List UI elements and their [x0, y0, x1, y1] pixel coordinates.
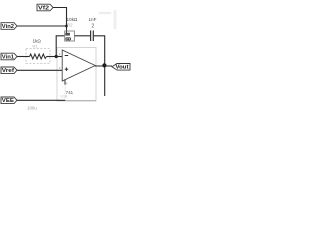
svg-text:R1: R1	[33, 43, 39, 48]
wire bottom rail continuation (faded)	[65, 100, 96, 102]
junction dot output node	[102, 63, 106, 67]
svg-text:1nF: 1nF	[89, 17, 97, 22]
wire port P1 to corner	[53, 8, 67, 31]
port P6 flag output	[112, 64, 130, 71]
svg-text:Vin1: Vin1	[2, 54, 14, 60]
dashed selection box around resistor R1	[26, 49, 50, 64]
junction dot at P2 wire / vertical	[65, 25, 68, 28]
port P2 flag	[1, 23, 17, 30]
junction dot inverting node	[55, 55, 58, 58]
wire port P2 row	[17, 25, 67, 27]
wire feedback left vertical to inverting node	[56, 36, 64, 57]
wire port P4 to non-inverting input	[17, 69, 62, 71]
svg-text:2: 2	[92, 24, 95, 30]
resistor R1 zigzag	[30, 54, 47, 59]
port P5 flag	[1, 97, 17, 104]
svg-text:100u: 100u	[27, 106, 37, 111]
faded wire pin4 to bottom rail	[64, 85, 66, 100]
wire feedback horizontal through network	[75, 35, 91, 37]
capacitor C2 plates	[91, 31, 94, 42]
wire op-amp output to port P6	[95, 65, 112, 67]
op-amp U1 triangle	[62, 50, 95, 81]
wire port P5 bottom rail	[17, 99, 65, 101]
svg-text:10kΩ: 10kΩ	[67, 17, 78, 22]
faint ghost vertical bar top right	[114, 10, 117, 29]
svg-text:R2: R2	[67, 23, 73, 28]
svg-text:Vout: Vout	[116, 65, 129, 71]
svg-text:VEE: VEE	[2, 98, 15, 104]
op-amp V- pin stub	[64, 80, 66, 85]
component X1 body (boxed part in feedback)	[65, 31, 75, 41]
wire R1 to inverting input	[47, 56, 63, 58]
faint ghost label bar top right	[99, 12, 112, 14]
svg-text:U1A: U1A	[61, 95, 68, 99]
port P4 flag	[1, 67, 17, 74]
selection outline around op-amp U1	[57, 48, 96, 102]
svg-text:Vin2: Vin2	[2, 24, 14, 30]
port P1 flag	[37, 4, 53, 11]
svg-text:Vref: Vref	[2, 68, 15, 74]
port P3 flag	[1, 53, 17, 60]
svg-text:Vf2: Vf2	[38, 5, 49, 11]
wire capacitor to right corner and down to output	[94, 36, 105, 96]
wire port P3 to resistor R1	[17, 56, 30, 58]
